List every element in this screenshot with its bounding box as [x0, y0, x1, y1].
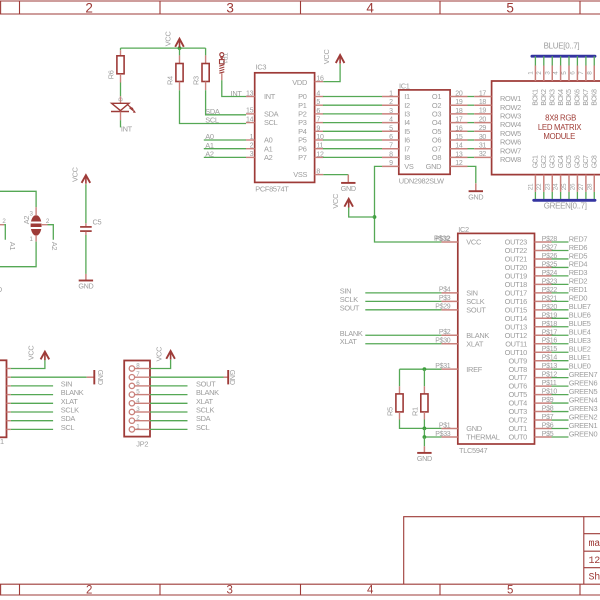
svg-text:BCK6: BCK6 [575, 89, 582, 106]
svg-text:P0: P0 [298, 92, 307, 101]
svg-text:7: 7 [316, 117, 320, 124]
wire JP2 SCL [150, 428, 188, 430]
svg-text:2: 2 [86, 584, 92, 596]
svg-text:P$16: P$16 [542, 338, 558, 345]
svg-text:SDA: SDA [264, 110, 279, 119]
svg-text:BCK3: BCK3 [549, 89, 556, 106]
svg-text:VCC: VCC [322, 49, 331, 65]
module top pin wires to BLUE bus [534, 56, 536, 65]
IC3 P0-P7 pin stubs [315, 96, 324, 98]
svg-text:VDD: VDD [292, 78, 307, 87]
svg-text:GREEN0: GREEN0 [569, 429, 598, 438]
svg-text:25: 25 [561, 183, 568, 190]
svg-text:ROW6: ROW6 [500, 138, 521, 147]
wire JP2 BLANK [150, 394, 188, 396]
wire VCC rail to R6 R4 R3 [121, 47, 206, 49]
svg-text:3: 3 [226, 0, 233, 15]
svg-text:A0: A0 [264, 136, 273, 145]
svg-text:ROW1: ROW1 [500, 94, 521, 103]
svg-text:17: 17 [455, 117, 463, 124]
svg-text:ROW4: ROW4 [500, 120, 521, 129]
wire JP1 pin8 to VCC [11, 360, 45, 368]
svg-text:8X8 RGB: 8X8 RGB [545, 113, 576, 122]
svg-text:SCL: SCL [196, 423, 210, 432]
svg-text:TP1: TP1 [221, 53, 228, 65]
svg-text:P$11: P$11 [542, 380, 557, 387]
svg-text:5: 5 [316, 99, 320, 106]
svg-text:10: 10 [316, 134, 324, 141]
svg-text:XLAT: XLAT [466, 339, 484, 348]
IC2 right pin wires [552, 241, 569, 243]
svg-text:SCL: SCL [205, 116, 219, 125]
svg-text:I7: I7 [404, 144, 410, 153]
wire SCL from R4 to IC3 [180, 90, 247, 123]
svg-text:SCL: SCL [264, 118, 278, 127]
supply VCC arrow IC1 VS [344, 199, 353, 207]
svg-text:2: 2 [85, 0, 92, 15]
svg-text:SOUT: SOUT [196, 379, 216, 388]
svg-text:JP1: JP1 [0, 437, 4, 446]
svg-text:22: 22 [536, 183, 543, 190]
wire THERMAL P$33 [424, 428, 441, 437]
svg-text:28: 28 [586, 183, 593, 190]
frame bottom band [0, 583, 600, 585]
wire R6 to LED [120, 83, 122, 97]
svg-text:D: D [0, 285, 2, 294]
svg-text:VCC: VCC [466, 238, 482, 247]
svg-text:O1: O1 [432, 92, 441, 101]
IC2 right pin stubs [535, 241, 552, 243]
wires IC3 P0-P7 to IC1 I1-I8 [323, 96, 382, 98]
svg-text:11: 11 [316, 143, 323, 150]
connector JP2 box [124, 361, 150, 437]
svg-text:ROW2: ROW2 [500, 103, 521, 112]
capacitor C5 [85, 223, 87, 226]
svg-text:I3: I3 [404, 110, 410, 119]
filter A2 pin 3 [35, 207, 37, 216]
wire A0 to IC3 [204, 139, 246, 141]
svg-text:Sh: Sh [589, 571, 600, 583]
testpoint TP1 [220, 53, 224, 57]
svg-text:16: 16 [455, 125, 463, 132]
svg-text:3: 3 [250, 151, 254, 158]
svg-text:PCF8574T: PCF8574T [255, 185, 289, 194]
svg-text:12: 12 [589, 556, 600, 567]
wire VCC to C5 [85, 184, 87, 223]
title block [404, 517, 600, 585]
svg-text:IC2: IC2 [458, 225, 469, 234]
offscreen pin 2 [0, 224, 4, 226]
svg-text:SOUT: SOUT [340, 303, 360, 312]
svg-text:12: 12 [316, 151, 324, 158]
svg-text:23: 23 [544, 183, 551, 190]
module 8x8 RGB LED matrix box [492, 81, 600, 175]
filter A2 pin 1 [35, 235, 37, 242]
svg-text:GC6: GC6 [575, 155, 582, 168]
wire BLANK to IC2 [365, 334, 441, 336]
svg-text:SCL: SCL [61, 423, 75, 432]
svg-text:ROW7: ROW7 [500, 146, 521, 155]
svg-text:4: 4 [316, 91, 320, 98]
svg-text:15: 15 [246, 108, 254, 115]
filter A2 pin 2 [41, 224, 48, 226]
junction IREF [423, 367, 427, 371]
svg-text:BLANK: BLANK [61, 388, 84, 397]
resistor R1 [423, 369, 425, 386]
svg-text:VCC: VCC [331, 193, 340, 209]
svg-text:P$32: P$32 [435, 236, 451, 243]
wire IC3 VDD to VCC [323, 64, 340, 82]
svg-text:9: 9 [316, 125, 320, 132]
svg-text:BCK1: BCK1 [533, 89, 540, 106]
svg-text:18: 18 [479, 99, 487, 106]
svg-text:P$8: P$8 [542, 406, 554, 413]
svg-text:SCLK: SCLK [196, 406, 214, 415]
svg-text:6: 6 [316, 108, 320, 115]
svg-text:SDA: SDA [196, 414, 211, 423]
svg-text:20: 20 [455, 91, 463, 98]
svg-text:17: 17 [479, 90, 487, 97]
svg-text:29: 29 [479, 125, 487, 132]
svg-text:A2: A2 [50, 242, 59, 251]
svg-text:30: 30 [479, 134, 487, 141]
svg-text:R3: R3 [192, 76, 201, 85]
svg-text:BLANK: BLANK [196, 388, 219, 397]
svg-text:MODULE: MODULE [543, 132, 575, 141]
wire A2 bottom loop [0, 242, 36, 267]
svg-text:SCLK: SCLK [61, 406, 79, 415]
svg-text:4: 4 [366, 0, 374, 15]
svg-text:BCK2: BCK2 [541, 89, 548, 106]
svg-text:BCK4: BCK4 [558, 89, 565, 106]
svg-text:GND: GND [78, 282, 93, 291]
svg-text:14: 14 [455, 143, 463, 150]
svg-text:A1: A1 [8, 242, 17, 251]
svg-text:P$27: P$27 [542, 244, 558, 251]
svg-text:I6: I6 [404, 136, 410, 145]
IC3 VDD pin 16 [315, 81, 324, 83]
svg-text:18: 18 [455, 108, 463, 115]
junction GND node [423, 427, 427, 431]
svg-text:GND: GND [341, 184, 356, 193]
svg-text:VCC: VCC [154, 346, 163, 362]
svg-text:3: 3 [389, 108, 393, 115]
wire JP2 XLAT [150, 402, 188, 404]
svg-text:SDA: SDA [205, 107, 220, 116]
svg-text:P4: P4 [298, 127, 307, 136]
svg-text:7: 7 [389, 143, 393, 150]
svg-text:GND: GND [468, 193, 483, 202]
wire JP1 SDA [11, 420, 53, 422]
wire JP1 pin7 to GND [11, 376, 87, 378]
svg-text:3: 3 [226, 584, 232, 596]
svg-text:16: 16 [316, 75, 324, 82]
svg-text:O6: O6 [432, 136, 441, 145]
svg-text:19: 19 [479, 108, 487, 115]
svg-text:P$19: P$19 [542, 312, 558, 319]
svg-text:6: 6 [389, 134, 393, 141]
svg-text:2: 2 [389, 99, 393, 106]
wire XLAT to IC2 [365, 343, 441, 345]
bus GREEN[0..7] [534, 199, 595, 202]
wire net A1 [4, 225, 5, 240]
svg-text:R1: R1 [410, 407, 419, 416]
svg-text:1: 1 [250, 134, 254, 141]
svg-text:O3: O3 [432, 110, 441, 119]
svg-text:O5: O5 [432, 127, 441, 136]
supply VCC arrow P1 [175, 39, 184, 47]
svg-text:P$21: P$21 [542, 295, 558, 302]
svg-text:P$12: P$12 [542, 372, 558, 379]
ground GND C5 [85, 274, 87, 281]
wire A1 to IC3 [204, 148, 246, 150]
svg-text:ROW3: ROW3 [500, 112, 521, 121]
bus BLUE[0..7] [532, 55, 595, 58]
JP2 pin circles [129, 366, 134, 371]
junction VCC rail [178, 46, 182, 50]
frame top band [0, 0, 600, 2]
svg-text:20: 20 [479, 116, 487, 123]
wire SOUT to IC2 [365, 309, 441, 311]
svg-text:BLUE[0..7]: BLUE[0..7] [544, 41, 580, 50]
svg-text:4: 4 [389, 117, 393, 124]
svg-text:P5: P5 [298, 136, 307, 145]
svg-text:P6: P6 [298, 144, 307, 153]
IC2 left pin stubs [441, 241, 457, 243]
svg-text:15: 15 [455, 134, 463, 141]
IC3 left pin stubs [246, 96, 255, 98]
ic IC2 TLC5947 box [458, 233, 535, 444]
svg-text:13: 13 [455, 151, 463, 158]
svg-text:SOUT: SOUT [466, 305, 486, 314]
svg-text:R6: R6 [107, 70, 116, 79]
svg-text:P$13: P$13 [542, 363, 558, 370]
svg-text:GREEN[0..7]: GREEN[0..7] [544, 202, 587, 211]
led LED1 INT [120, 96, 122, 103]
svg-text:P$24: P$24 [542, 270, 558, 277]
svg-text:SDA: SDA [61, 414, 76, 423]
svg-text:P$25: P$25 [542, 261, 558, 268]
wire INT from TP1 to IC3 [222, 80, 246, 96]
svg-text:A0: A0 [205, 132, 214, 141]
svg-text:O8: O8 [432, 153, 441, 162]
svg-text:A1: A1 [264, 144, 273, 153]
module bottom pin wires to GREEN bus [534, 192, 536, 200]
junction VS node [373, 215, 377, 219]
svg-text:P$15: P$15 [542, 346, 558, 353]
wire JP1 SCLK [11, 411, 53, 413]
svg-text:P$5: P$5 [542, 431, 554, 438]
svg-text:LED MATRIX: LED MATRIX [538, 123, 582, 132]
wire net A2 [48, 225, 54, 240]
svg-text:P7: P7 [298, 153, 307, 162]
svg-text:P$14: P$14 [542, 355, 558, 362]
resistor R4 [179, 48, 181, 55]
svg-text:P$7: P$7 [542, 414, 554, 421]
svg-text:XLAT: XLAT [61, 397, 79, 406]
svg-text:1: 1 [389, 91, 393, 98]
wire A2 top loop [0, 191, 36, 207]
wire branch to VCC arrow [349, 207, 375, 217]
wire JP1 XLAT [11, 402, 53, 404]
ground GND IC1 [475, 183, 477, 191]
svg-text:P$10: P$10 [542, 389, 558, 396]
svg-text:5: 5 [506, 0, 513, 15]
svg-text:XLAT: XLAT [340, 337, 358, 346]
svg-text:I5: I5 [404, 127, 410, 136]
wire JP2 SDA [150, 420, 188, 422]
svg-text:21: 21 [528, 183, 535, 190]
wire LED to INT label [120, 120, 122, 127]
wire SCLK to IC2 [365, 300, 441, 302]
wire GND P$1 to IC2 [424, 427, 441, 429]
svg-text:A2: A2 [205, 150, 214, 159]
IC3 VSS pin 8 [315, 174, 324, 176]
wire JP1 SCL [11, 428, 53, 430]
ground GND R1 R5 [423, 446, 425, 453]
svg-text:5: 5 [507, 584, 513, 596]
wire SDA from R3 to IC3 [206, 90, 246, 115]
svg-text:P$20: P$20 [542, 304, 558, 311]
wire IC1 GND pin 12 [468, 166, 476, 183]
svg-text:O7: O7 [432, 144, 441, 153]
svg-text:P$22: P$22 [542, 287, 558, 294]
svg-text:14: 14 [246, 116, 254, 123]
svg-text:32: 32 [479, 151, 487, 158]
svg-text:GC3: GC3 [549, 155, 556, 168]
svg-text:THERMAL: THERMAL [466, 433, 499, 442]
svg-text:P$17: P$17 [542, 329, 558, 336]
wire JP2 pin8 to VCC [150, 360, 171, 369]
svg-text:26: 26 [570, 183, 577, 190]
wire C5 to GND [85, 235, 87, 274]
svg-text:BCK5: BCK5 [566, 89, 573, 106]
svg-text:O4: O4 [432, 118, 441, 127]
svg-text:A2: A2 [264, 153, 273, 162]
supply VCC arrow JP2 [166, 351, 175, 359]
svg-text:GC1: GC1 [533, 155, 540, 168]
op IC3 PCF8574T box [255, 73, 315, 183]
svg-text:27: 27 [578, 183, 585, 190]
resistor R5 [399, 369, 401, 386]
svg-text:IC3: IC3 [256, 62, 267, 71]
svg-text:31: 31 [479, 143, 487, 150]
ground GND IC3 [347, 175, 349, 183]
svg-text:9: 9 [389, 160, 393, 167]
junction THERMAL node [423, 435, 427, 439]
svg-text:O2: O2 [432, 101, 441, 110]
svg-text:GND: GND [417, 454, 432, 463]
svg-text:P2: P2 [298, 110, 307, 119]
svg-text:4: 4 [367, 584, 374, 596]
svg-text:VCC: VCC [164, 31, 173, 47]
resistor R3 [205, 48, 207, 55]
wires IC1 O1-O8 to module ROW1-ROW8 [468, 96, 475, 98]
svg-text:P$23: P$23 [542, 278, 558, 285]
svg-text:ma: ma [589, 539, 600, 550]
ground GND JP2 rotated [224, 376, 229, 378]
svg-text:A1: A1 [205, 141, 214, 150]
svg-text:GC8: GC8 [591, 155, 598, 168]
wire to GND symbol [423, 437, 425, 446]
ic IC1 UDN2982SLW box [399, 90, 450, 174]
svg-text:P$9: P$9 [542, 397, 554, 404]
svg-text:INT: INT [121, 124, 133, 133]
wire JP1 BLANK [11, 394, 53, 396]
svg-text:SIN: SIN [61, 379, 72, 388]
module top pin stubs [534, 66, 536, 82]
wire JP2 SOUT [150, 385, 188, 387]
svg-text:INT: INT [264, 92, 276, 101]
svg-text:OUT0: OUT0 [508, 433, 527, 442]
svg-text:I4: I4 [404, 118, 410, 127]
svg-text:2: 2 [250, 143, 254, 150]
svg-text:IREF: IREF [466, 365, 482, 374]
svg-text:5: 5 [389, 125, 393, 132]
wire JP2 pin7 to GND [150, 376, 224, 378]
svg-text:BCK8: BCK8 [591, 89, 598, 106]
svg-text:GC2: GC2 [541, 155, 548, 168]
wire IC3 VSS to GND [323, 174, 348, 176]
svg-text:19: 19 [455, 99, 463, 106]
JP1 pin stubs [7, 368, 11, 370]
svg-text:13: 13 [246, 90, 254, 97]
svg-text:24: 24 [553, 183, 560, 190]
svg-text:JP2: JP2 [136, 439, 148, 448]
JP2 pin stubs [135, 368, 150, 370]
svg-text:IC1: IC1 [399, 81, 410, 90]
supply VCC arrow IC3 [336, 55, 345, 63]
svg-text:I2: I2 [404, 101, 410, 110]
svg-text:VS: VS [404, 162, 414, 171]
ground GND JP1 rotated [87, 376, 95, 378]
svg-text:VCC: VCC [26, 345, 35, 361]
svg-text:12: 12 [455, 160, 463, 167]
svg-text:XLAT: XLAT [196, 397, 214, 406]
svg-text:P$6: P$6 [542, 423, 554, 430]
IC1 right pin stubs [450, 96, 467, 98]
svg-text:I1: I1 [404, 92, 410, 101]
wire IREF node [400, 368, 442, 370]
IC1 left pin stubs [382, 96, 399, 98]
svg-text:VSS: VSS [293, 170, 307, 179]
svg-text:R4: R4 [166, 76, 175, 85]
supply VCC arrow C5 [82, 175, 91, 183]
svg-text:TLC5947: TLC5947 [459, 446, 487, 455]
svg-text:P$18: P$18 [542, 321, 558, 328]
svg-text:P3: P3 [298, 118, 307, 127]
wire JP1 SIN [11, 385, 53, 387]
svg-text:8: 8 [316, 168, 320, 175]
wire A2 to IC3 [204, 156, 246, 158]
connector JP1 box [0, 360, 7, 437]
svg-text:UDN2982SLW: UDN2982SLW [399, 177, 444, 186]
svg-text:R5: R5 [386, 407, 395, 416]
wire IC1 VS to VCC and IC2 [375, 166, 442, 242]
svg-text:I8: I8 [404, 153, 410, 162]
svg-text:D: D [119, 97, 125, 101]
svg-text:GC4: GC4 [558, 155, 565, 168]
wire JP2 SCLK [150, 411, 188, 413]
module bottom pin stubs [534, 175, 536, 192]
resistor R6 [120, 48, 122, 50]
svg-text:GC5: GC5 [566, 155, 573, 168]
svg-text:ROW8: ROW8 [500, 155, 521, 164]
svg-text:BCK7: BCK7 [583, 89, 590, 106]
svg-text:GC7: GC7 [583, 155, 590, 168]
svg-text:P$28: P$28 [542, 236, 558, 243]
svg-text:INT: INT [231, 89, 243, 98]
